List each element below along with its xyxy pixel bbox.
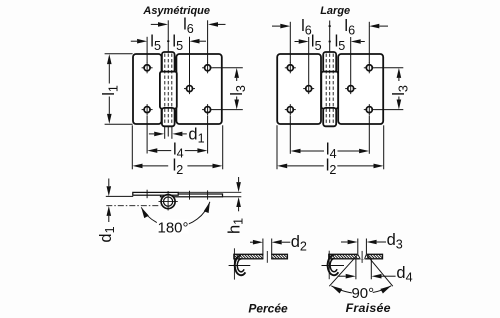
svg-text:l5: l5 [311,33,322,53]
hinge pin hidden lines [164,54,166,126]
fraisee curl inner arc [330,259,337,272]
extension line hinge center up [167,20,169,52]
percee curl inner arc [237,259,244,272]
large screw hole left-inner [306,86,312,92]
svg-text:Percée: Percée [248,301,288,315]
percee hole centerline [266,251,268,263]
side view: hole tick marks [146,190,148,199]
svg-text:h1: h1 [225,218,245,234]
large dimension l4 [291,149,301,154]
percee hatching [230,254,294,259]
knuckle middle segment [160,72,177,109]
svg-text:l6: l6 [183,16,194,36]
dimension d1 [154,132,164,137]
large hinge pin hidden lines [325,54,327,126]
dimension d1 arrows [107,186,112,196]
svg-text:l3: l3 [228,85,248,96]
svg-text:d1: d1 [188,125,204,145]
screw hole right bottom [205,107,211,113]
side view: pin inner circle [164,197,173,206]
extension line right hole column up [207,20,209,63]
percee leaf section bar [234,254,288,258]
dimension h1 arrows [236,182,241,192]
dimension d2 [253,240,263,245]
percee hole gap [263,253,271,259]
large dimension l2 [277,164,287,169]
fraisee countersink white gap [357,253,367,259]
fraisee leaf section bar [329,254,383,258]
dimension d4 [346,274,356,279]
svg-text:l6: l6 [344,17,355,37]
dimension l1 [107,54,112,64]
svg-text:d2: d2 [291,233,307,253]
large screw hole right-inner [348,86,354,92]
dimension l6 [158,22,168,27]
screw hole right top [205,65,211,71]
large ext lines plate corners down [276,125,278,169]
dimension d3 [348,240,358,245]
dimension l5 l5 [137,39,147,44]
large dimension l6 l6 [280,24,290,29]
svg-text:Large: Large [320,5,350,17]
extension lines d1 pin [164,126,166,139]
dimension l4 [147,148,157,153]
knuckle bottom segment [162,108,175,126]
hinge body: right leaf plate [176,54,221,124]
fraisee cone diagonals [329,255,358,287]
large ext lines inner holes up [308,37,310,83]
side view: circle centerlines [159,201,178,203]
extension line left hole column up [146,37,148,63]
svg-text:l5: l5 [150,33,161,53]
side view: phantom line dash-dot [106,205,160,207]
dimension l2 [133,164,143,169]
large ext lines bottom holes down [289,115,291,153]
fraisee countersink V walls [358,254,360,258]
extension lines l3 [213,67,243,69]
svg-text:d3: d3 [387,231,403,251]
fraisee hole centerline [361,251,363,263]
dimension d1 upper extension [106,195,133,197]
dimension l3 [234,68,239,78]
90deg angle arc [331,286,391,294]
large ext line center up [329,21,331,53]
90 arc arrowheads [331,286,342,294]
180deg angle arc [141,202,210,227]
large hinge: right leaf plate [338,54,383,124]
screw hole center [186,86,192,92]
fraisee curl outer arc [328,255,339,275]
svg-text:d4: d4 [396,264,412,284]
side view: knuckle outer circle [161,195,175,209]
screw hole left top [144,65,150,71]
fraisee curl centerlines [328,251,330,280]
percee curl outer arc [235,256,246,276]
svg-text:180°: 180° [157,220,188,237]
svg-text:l5: l5 [172,33,183,53]
percee curl centerlines [233,248,235,279]
svg-text:Fraisée: Fraisée [346,301,391,315]
fraisee hatching [325,254,389,259]
large screw hole right-outer top [366,65,372,71]
large knuckle bottom segment [323,108,336,126]
screw hole left bottom [144,107,150,113]
side view: left leaf (upper) [133,192,178,195]
large screw hole left-outer bottom [287,107,293,113]
svg-text:l1: l1 [100,85,120,96]
arc arrowheads [141,207,149,218]
knuckle top segment [162,52,175,72]
side view: right leaf (lower) [161,194,223,197]
svg-text:Asymétrique: Asymétrique [142,5,210,17]
side view: left leaf top surface extension [178,191,241,193]
svg-text:d1: d1 [97,226,117,242]
extension line hinge center below [167,127,169,137]
hinge body: left leaf plate [133,54,162,124]
large knuckle top segment [323,52,336,72]
large screw hole left-outer top [287,65,293,71]
fraisee ext lines up d3 [357,239,359,255]
large dimension l3 [397,68,402,78]
svg-text:l3: l3 [390,85,410,96]
svg-text:90°: 90° [351,285,374,302]
large dimension l5 l5 [299,39,309,44]
large hinge: left leaf plate [277,54,321,124]
svg-text:l5: l5 [335,33,346,53]
extension lines bottom holes down [146,115,148,153]
large ext lines outer hole columns up [289,22,291,63]
large knuckle middle segment [321,72,338,109]
percee hole walls / ext lines [262,239,264,259]
extension lines l1 [105,53,133,55]
large screw hole right-outer bottom [366,107,372,113]
dimension h1 lower extension [223,196,242,198]
large ext lines l3 [375,67,404,69]
extension line center hole column up [189,37,191,83]
extension lines plate corners down [131,125,133,169]
fraisee ext lines down d4 [355,259,357,280]
